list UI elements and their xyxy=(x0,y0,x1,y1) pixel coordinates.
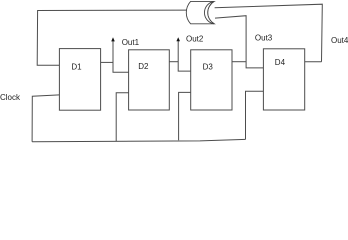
wire Out4 loop to XOR upper input xyxy=(215,4,323,62)
XOR gate U1 xyxy=(186,1,214,23)
svg-text:Out1: Out1 xyxy=(122,38,140,47)
wire D3 Q output xyxy=(232,61,246,63)
arrowhead Out1 xyxy=(111,37,115,41)
wire Out2 vertical and D3 input xyxy=(178,41,191,72)
flip-flop D3 xyxy=(191,50,232,110)
svg-text:D1: D1 xyxy=(71,62,82,71)
flip-flop D2 xyxy=(129,50,170,110)
flip-flop D1 xyxy=(59,49,100,111)
svg-text:D2: D2 xyxy=(138,62,149,71)
flip-flop D4 xyxy=(263,49,304,110)
svg-text:Out3: Out3 xyxy=(255,34,273,43)
svg-text:Clock: Clock xyxy=(0,93,21,102)
svg-text:D3: D3 xyxy=(203,63,214,72)
wire D4 Q output xyxy=(305,61,322,63)
wire clock riser to D4 xyxy=(246,91,264,139)
wire clock bus bottom xyxy=(32,139,245,141)
wire D2 Q output xyxy=(169,61,178,63)
svg-text:Out4: Out4 xyxy=(331,36,348,45)
wire D1 Q output xyxy=(101,61,113,63)
wire Out3 tap to XOR lower input and D4 input xyxy=(215,16,263,68)
wire clock riser to D2 xyxy=(116,93,128,141)
svg-text:Out2: Out2 xyxy=(186,35,204,44)
wire Out1 vertical and D2 input xyxy=(113,41,129,73)
wire clock riser to D3 xyxy=(179,92,191,140)
arrowhead Out2 xyxy=(176,37,180,41)
wire feedback top from XOR output xyxy=(37,10,186,65)
svg-text:D4: D4 xyxy=(275,58,286,67)
wire clock input to D1 xyxy=(32,95,59,142)
